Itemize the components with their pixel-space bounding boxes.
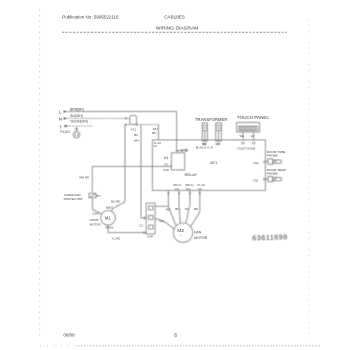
svg-text:TRANSFORMER: TRANSFORMER bbox=[195, 117, 227, 122]
wire N line bbox=[64, 117, 130, 119]
svg-text:4(1): 4(1) bbox=[186, 187, 191, 191]
touch panel leads bbox=[243, 132, 254, 140]
wire L line bbox=[64, 110, 177, 149]
relay K1 contact bbox=[176, 149, 187, 152]
svg-text:KT1: KT1 bbox=[131, 127, 137, 131]
svg-text:N: N bbox=[59, 117, 62, 122]
svg-text:06/08: 06/08 bbox=[63, 333, 75, 338]
svg-text:⏚: ⏚ bbox=[59, 124, 63, 129]
svg-text:(BK-C): (BK-C) bbox=[185, 183, 193, 187]
svg-text:CN2: CN2 bbox=[253, 161, 259, 165]
run capacitor C1 box bbox=[143, 203, 155, 234]
svg-text:CAP.: CAP. bbox=[147, 235, 154, 239]
wire N branch to capacitor bbox=[141, 125, 146, 218]
svg-text:PROBE: PROBE bbox=[267, 154, 278, 158]
page border bottom dashed rule bbox=[78, 345, 321, 347]
node junction under KT1 bbox=[125, 124, 159, 126]
svg-text:6: 6 bbox=[174, 333, 177, 339]
svg-text:BRN(BK): BRN(BK) bbox=[70, 107, 84, 111]
overload protector symbol bbox=[89, 193, 98, 197]
plug symbol bbox=[73, 127, 80, 138]
svg-text:PROTECTOR: PROTECTOR bbox=[64, 197, 84, 201]
fan wire connector crosses bbox=[168, 193, 201, 195]
fan wire BK bbox=[191, 190, 200, 226]
room temp probe sensor bbox=[264, 176, 282, 181]
fan wire RD bbox=[168, 190, 175, 225]
svg-text:GY: GY bbox=[216, 142, 220, 146]
page border left dotted bbox=[39, 9, 40, 335]
wire N branch into board bbox=[158, 125, 160, 140]
compressor run wire to capacitor bbox=[108, 225, 146, 233]
compressor motor M1 circle bbox=[101, 211, 116, 226]
svg-text:C1: C1 bbox=[139, 223, 143, 227]
transformer coil left bbox=[202, 123, 207, 141]
touch panel box bbox=[237, 123, 260, 133]
capacitor GN wire to fan bbox=[155, 219, 175, 230]
svg-text:OG: OG bbox=[164, 163, 168, 167]
compressor terminal ticks bbox=[112, 208, 113, 211]
relay K1 coil box bbox=[171, 153, 184, 170]
svg-text:1(1): 1(1) bbox=[198, 187, 203, 191]
capacitor to fan RD node bbox=[155, 205, 168, 207]
svg-text:CN10T CN10E: CN10T CN10E bbox=[237, 147, 255, 151]
svg-text:COM: COM bbox=[163, 168, 169, 172]
room tube probe sensor bbox=[264, 159, 282, 164]
svg-text:WH RD: WH RD bbox=[79, 176, 90, 180]
svg-text:RELAY: RELAY bbox=[185, 172, 198, 177]
fan wire YE bbox=[186, 190, 190, 223]
transformer coil right bbox=[216, 123, 222, 141]
page border right dotted bbox=[309, 20, 310, 340]
svg-text:TOUCH PANEL: TOUCH PANEL bbox=[237, 115, 270, 120]
touch panel connector pins bbox=[242, 142, 255, 145]
svg-text:S(BU): S(BU) bbox=[106, 206, 113, 210]
svg-text:MOTOR: MOTOR bbox=[90, 222, 102, 226]
svg-text:L: L bbox=[59, 110, 62, 115]
svg-text:1(1): 1(1) bbox=[174, 187, 179, 191]
svg-text:63611698: 63611698 bbox=[252, 234, 288, 242]
svg-text:C(BK): C(BK) bbox=[92, 212, 99, 216]
svg-text:BU RD: BU RD bbox=[111, 199, 121, 203]
transformer connector pins bbox=[204, 142, 220, 145]
svg-text:BU: BU bbox=[134, 133, 138, 137]
control board AT1 outline bbox=[152, 140, 265, 191]
wire N branch to compressor S bbox=[113, 125, 125, 209]
footer bbox=[63, 333, 177, 340]
svg-text:K1: K1 bbox=[164, 156, 169, 160]
svg-text:PROBE: PROBE bbox=[267, 172, 278, 176]
relay COM wire to overload bbox=[92, 166, 171, 192]
svg-text:GY: GY bbox=[251, 134, 255, 138]
header bbox=[62, 15, 198, 32]
svg-text:(BU-C): (BU-C) bbox=[173, 183, 181, 187]
svg-text:R(WH): R(WH) bbox=[106, 226, 114, 230]
svg-text:Publication No: 5995522116: Publication No: 5995522116 bbox=[62, 15, 119, 20]
svg-text:YE: YE bbox=[185, 207, 189, 211]
svg-text:MOTOR: MOTOR bbox=[194, 236, 207, 240]
junction crosses under KT1 bbox=[125, 124, 137, 126]
page border dashed top rule bbox=[62, 31, 287, 33]
svg-text:M1: M1 bbox=[105, 215, 111, 220]
svg-text:AT1: AT1 bbox=[210, 160, 218, 165]
svg-text:PLUG: PLUG bbox=[60, 130, 70, 134]
svg-text:FAN: FAN bbox=[194, 230, 201, 234]
diagram text labels bbox=[59, 107, 286, 240]
svg-text:BK: BK bbox=[194, 207, 198, 211]
svg-text:BU: BU bbox=[152, 131, 156, 135]
svg-text:YE/GN(GN): YE/GN(GN) bbox=[70, 120, 88, 124]
svg-text:(YL-R): (YL-R) bbox=[197, 183, 205, 187]
svg-text:4TY: 4TY bbox=[97, 195, 102, 198]
svg-text:GN: GN bbox=[159, 219, 164, 223]
fan motor M2 circle bbox=[173, 223, 192, 242]
svg-text:CAB18ES: CAB18ES bbox=[164, 15, 185, 20]
svg-text:CN1: CN1 bbox=[253, 179, 259, 183]
svg-text:GY: GY bbox=[154, 144, 158, 148]
svg-text:BU: BU bbox=[175, 207, 179, 211]
wire overload to compressor bbox=[93, 198, 102, 214]
svg-text:WH: WH bbox=[240, 134, 244, 138]
svg-text:WH: WH bbox=[134, 139, 139, 143]
N line connector cross bbox=[125, 118, 127, 120]
svg-text:YL RD: YL RD bbox=[112, 236, 122, 240]
relay terminal tick bbox=[170, 165, 171, 166]
thermal fuse KT1 bbox=[130, 115, 137, 124]
ground wire bbox=[65, 125, 94, 127]
fan wire BU bbox=[179, 190, 180, 223]
svg-text:WIRING DIAGRAM: WIRING DIAGRAM bbox=[156, 25, 198, 31]
svg-text:BU(WH): BU(WH) bbox=[70, 114, 83, 118]
svg-text:BU-BU/1 YL-R: BU-BU/1 YL-R bbox=[196, 146, 213, 150]
